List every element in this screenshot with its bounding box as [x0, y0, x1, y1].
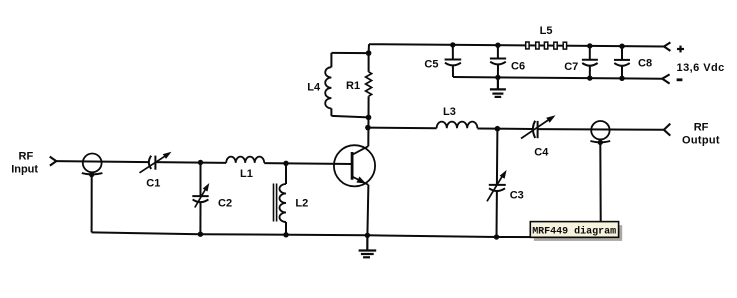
- node input bypass junction: [89, 172, 94, 177]
- label L2: [295, 198, 308, 210]
- svg-text:13,6 Vdc: 13,6 Vdc: [677, 62, 725, 74]
- label C3: [510, 189, 524, 201]
- label C6: [511, 61, 525, 73]
- label L3: [443, 106, 456, 118]
- svg-text:C5: C5: [424, 59, 438, 71]
- ground symbol at emitter: [359, 235, 377, 257]
- tooltip shadow: [534, 225, 622, 241]
- inductor L4: [325, 53, 368, 118]
- node output bypass junction: [598, 140, 603, 145]
- svg-text:L3: L3: [443, 106, 456, 118]
- resistor R1: [366, 53, 372, 117]
- node C2 bottom junction: [198, 232, 203, 237]
- capacitor C1 (variable): [140, 152, 172, 173]
- label L5: [540, 25, 553, 37]
- inductor L5 (beads): [526, 42, 567, 49]
- RF Output label: [682, 121, 720, 146]
- capacitor C2 (variable): [192, 163, 209, 235]
- node L2 top junction: [283, 161, 288, 166]
- transistor Q1: [334, 145, 375, 186]
- svg-text:C8: C8: [638, 58, 652, 70]
- capacitor C6: [490, 45, 506, 77]
- input terminal arrow: [50, 157, 57, 166]
- label L4: [307, 82, 321, 94]
- svg-text:C6: C6: [511, 61, 525, 73]
- node C2 top junction: [198, 160, 203, 165]
- inductor L1: [226, 157, 264, 163]
- capacitor C3 (variable): [487, 129, 507, 237]
- tooltip box MRF449 diagram: [530, 222, 618, 238]
- svg-text:Output: Output: [682, 135, 720, 147]
- wire L3 to C4: [477, 128, 532, 131]
- terminal minus: [662, 74, 669, 78]
- tooltip text: [532, 226, 616, 238]
- label R1: [346, 80, 360, 92]
- svg-text:R1: R1: [346, 80, 360, 92]
- svg-text:L2: L2: [295, 198, 308, 210]
- wire collector vertical: [367, 117, 369, 146]
- label C7: [564, 61, 578, 73]
- node L2 bottom junction: [283, 232, 288, 237]
- label L1: [240, 168, 253, 180]
- capacitor C5: [445, 45, 462, 77]
- capacitor C4 (variable): [521, 115, 556, 138]
- terminal output: [664, 124, 670, 130]
- svg-text:C1: C1: [146, 177, 160, 189]
- feedthrough capacitor input: [83, 154, 102, 173]
- svg-text:RF: RF: [19, 150, 34, 162]
- node C6 top: [495, 43, 500, 48]
- node C8 bottom: [619, 76, 624, 81]
- inductor L3: [437, 122, 478, 129]
- label C5: [424, 59, 438, 71]
- label C2: [218, 197, 232, 209]
- node R1 L4 top: [366, 50, 372, 56]
- ground symbol at C6: [490, 77, 506, 97]
- wire output tap down: [599, 142, 602, 237]
- wire L1 to transistor base: [264, 162, 352, 165]
- node C5 top: [450, 42, 455, 47]
- wire input tap down: [91, 175, 93, 233]
- node C3 bottom: [494, 234, 499, 239]
- wire supply return rail: [453, 77, 662, 79]
- wire input to C1: [56, 161, 149, 162]
- node collector branch: [365, 125, 371, 131]
- node R1 L4 bottom: [366, 115, 372, 121]
- node C7 bottom: [587, 75, 592, 80]
- wire supply rail top: [369, 44, 664, 53]
- svg-text:L5: L5: [540, 25, 553, 37]
- node C7 top: [587, 43, 592, 48]
- svg-text:C7: C7: [564, 61, 578, 73]
- wire collector row: [368, 127, 437, 130]
- label C4: [534, 147, 549, 159]
- node C6 bottom: [495, 75, 500, 80]
- capacitor C8: [614, 46, 630, 78]
- terminal plus: [664, 42, 670, 46]
- inductor L2 with core: [274, 163, 287, 235]
- feedthrough capacitor output: [591, 121, 609, 139]
- capacitor C7: [582, 46, 598, 78]
- svg-text:C3: C3: [510, 189, 524, 201]
- svg-text:C2: C2: [218, 197, 232, 209]
- ground rail bottom: [92, 232, 601, 237]
- wire emitter vertical: [367, 185, 368, 236]
- svg-text:RF: RF: [694, 121, 709, 133]
- node emitter ground junction: [365, 233, 370, 238]
- svg-text:Input: Input: [11, 163, 38, 175]
- svg-text:L4: L4: [307, 82, 321, 94]
- label C8: [638, 58, 652, 70]
- wire C1 to L1: [155, 161, 226, 164]
- RF Input label: [11, 150, 38, 175]
- svg-text:C4: C4: [534, 147, 549, 159]
- label minus sign: [677, 78, 683, 81]
- wire C4 to output: [538, 128, 664, 131]
- svg-text:L1: L1: [240, 168, 253, 180]
- label plus sign: [677, 46, 684, 53]
- label 13.6 Vdc: [677, 62, 725, 74]
- label C1: [146, 177, 160, 189]
- node L3 C3 C4 junction: [495, 126, 501, 132]
- svg-text:MRF449 diagram: MRF449 diagram: [532, 226, 616, 238]
- node C8 top: [619, 44, 624, 49]
